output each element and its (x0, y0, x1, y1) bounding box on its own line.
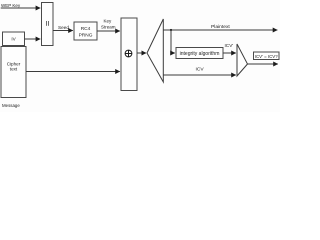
label ICV (196, 66, 205, 72)
block Cipher text (message body) (1, 47, 26, 98)
wire WEP Key to concatenation box (1, 7, 41, 9)
wire comparator output (248, 63, 278, 65)
wire ICV: splitter to comparator (163, 74, 236, 76)
wire Key Stream: RC4 PRNG to XOR box (97, 30, 120, 32)
label Key Stream (101, 18, 116, 29)
comparator triangle (237, 44, 248, 76)
svg-text:Plaintext: Plaintext (211, 24, 230, 30)
block concatenation || (42, 3, 54, 46)
svg-text:WEP Key: WEP Key (1, 3, 21, 8)
svg-text:ICV': ICV' (225, 43, 234, 48)
block RC4 PRNG (74, 22, 97, 40)
label Plaintext (211, 24, 230, 30)
svg-text:integrity algorithm: integrity algorithm (180, 51, 220, 57)
wire XOR output to splitter (137, 52, 146, 54)
label Message (2, 103, 20, 108)
block XOR combiner (121, 18, 137, 91)
svg-text:Message: Message (2, 103, 20, 108)
block result ICV' = ICV? (254, 52, 280, 60)
svg-text:text: text (10, 66, 18, 71)
label Seed (58, 25, 69, 30)
svg-text:PRNG: PRNG (79, 33, 93, 39)
svg-text:RC4: RC4 (81, 26, 91, 32)
xor symbol (125, 50, 132, 57)
svg-text:Seed: Seed (58, 25, 69, 30)
svg-text:Key: Key (104, 18, 113, 23)
wire branch down to integrity algorithm (171, 30, 175, 53)
svg-text:ICV: ICV (196, 66, 205, 72)
wire Plaintext (163, 29, 277, 31)
svg-text:ICV' = ICV?: ICV' = ICV? (255, 54, 278, 59)
splitter triangle (147, 19, 163, 82)
svg-text:Stream: Stream (101, 25, 116, 30)
wire Seed: concatenation to RC4 PRNG (53, 30, 73, 32)
label ICV' (225, 43, 234, 48)
block IV (3, 32, 25, 46)
wire IV to concatenation box (25, 38, 41, 40)
block integrity algorithm (176, 48, 223, 59)
node branch junction (170, 29, 172, 31)
label WEP Key (1, 3, 21, 8)
wire Cipher text to XOR box (26, 71, 120, 73)
wire ICV' to comparator (223, 52, 236, 54)
